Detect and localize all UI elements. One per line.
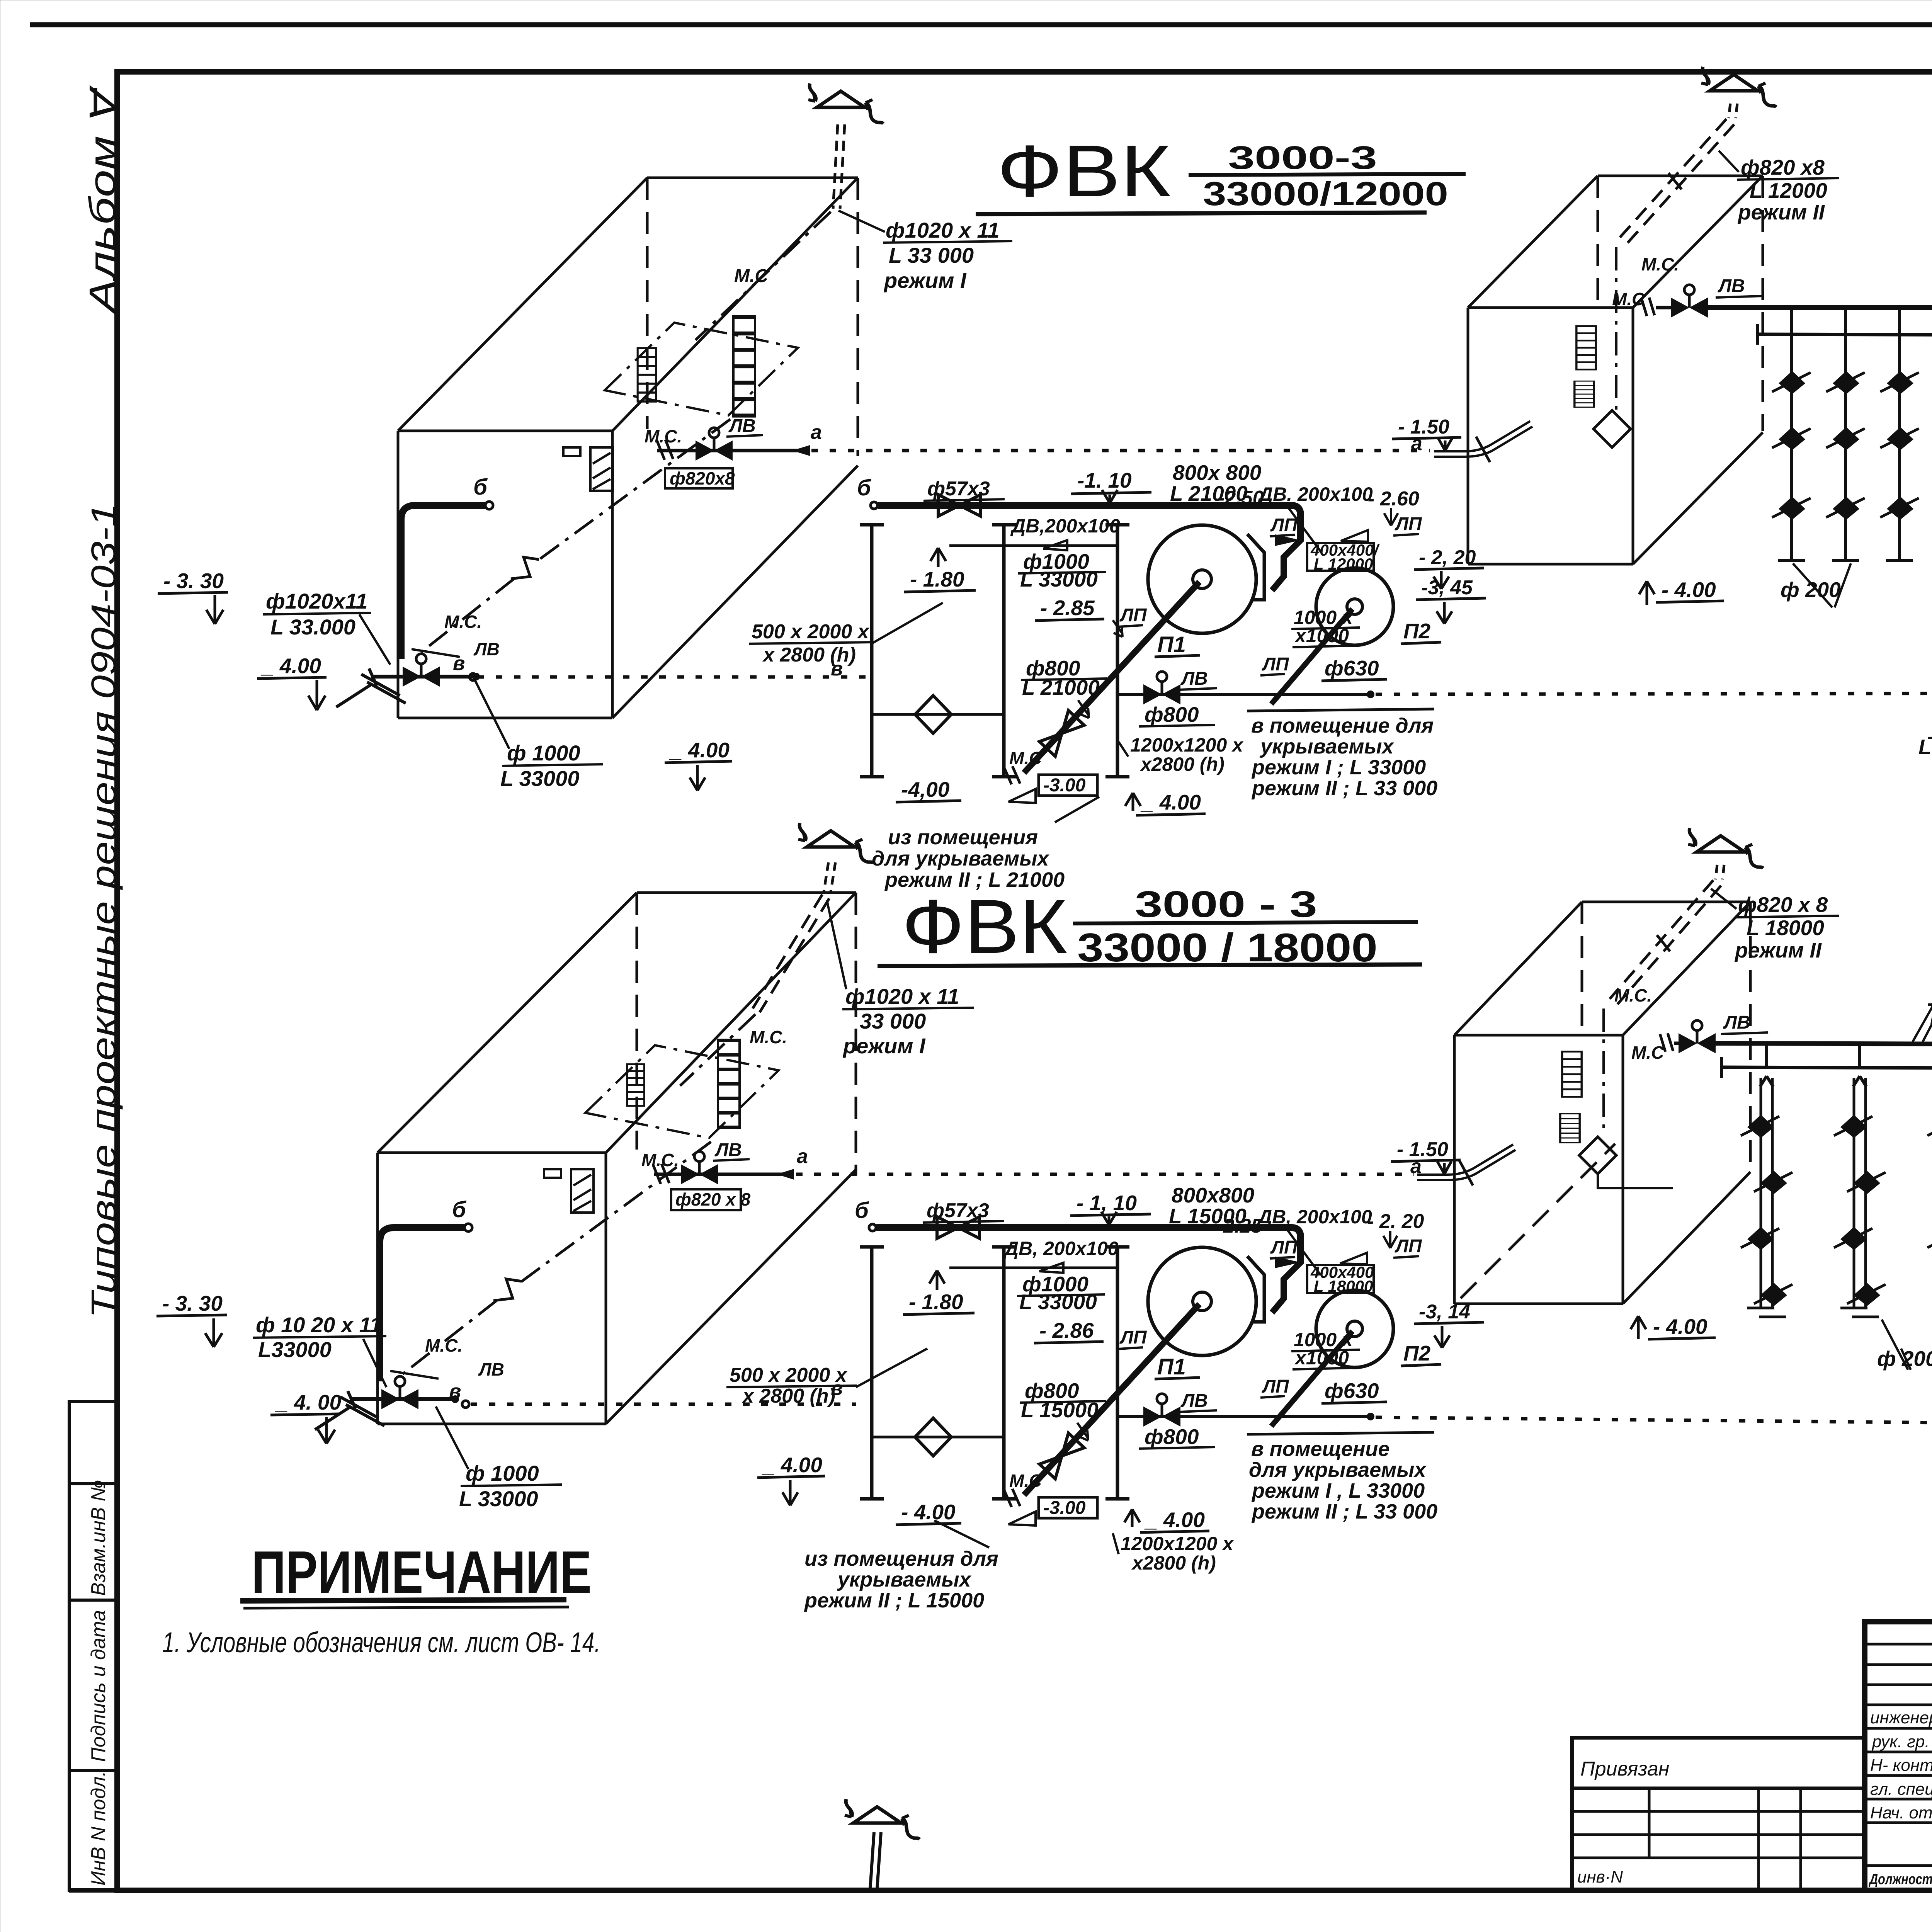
interior dash-dot duct bbox=[1615, 247, 1617, 410]
a-line level label bottom bbox=[1391, 1138, 1515, 1185]
svg-text:М.С.: М.С. bbox=[1641, 254, 1679, 274]
svg-text:в: в bbox=[449, 1380, 461, 1403]
svg-text:М.С.: М.С. bbox=[1614, 985, 1652, 1005]
svg-text:инженер: инженер bbox=[1870, 1708, 1932, 1727]
svg-text:х 2800 (h): х 2800 (h) bbox=[742, 1385, 835, 1407]
svg-text:L 33000: L 33000 bbox=[1020, 567, 1098, 591]
svg-text:х2800 (h): х2800 (h) bbox=[1139, 753, 1225, 775]
secondary rail bbox=[1756, 324, 1759, 345]
svg-text:укрываемых: укрываемых bbox=[1259, 735, 1395, 758]
svg-text:режим II: режим II bbox=[1737, 200, 1825, 224]
svg-text:М.С.: М.С. bbox=[425, 1335, 463, 1355]
interior stairs bbox=[1577, 326, 1596, 370]
main header duct bbox=[1702, 305, 1932, 310]
filter chamber verticals bbox=[860, 525, 884, 777]
svg-text:ф820 х 8: ф820 х 8 bbox=[1738, 893, 1828, 917]
interior stairs bbox=[1562, 1052, 1582, 1097]
svg-text:ф820х8: ф820х8 bbox=[670, 468, 735, 488]
LV branch line bbox=[1117, 1415, 1368, 1418]
svg-text:- 4.00: - 4.00 bbox=[901, 1500, 956, 1524]
svg-text:М.С: М.С bbox=[1009, 748, 1042, 768]
svg-text:б: б bbox=[452, 1197, 467, 1222]
svg-text:_ 4.00: _ 4.00 bbox=[1144, 1508, 1205, 1532]
node b circle bbox=[869, 1224, 876, 1231]
svg-text:режим I: режим I bbox=[883, 268, 967, 293]
title block outer box bbox=[1865, 1622, 1932, 1890]
svg-text:Подпись и дата: Подпись и дата bbox=[87, 1610, 110, 1762]
svg-text:- 1, 10: - 1, 10 bbox=[1077, 1191, 1137, 1215]
interior duct dash-dot diagonal with break bbox=[421, 419, 730, 652]
destination text block bbox=[1247, 1432, 1434, 1434]
interior dash-dot duct bbox=[1602, 1009, 1605, 1136]
filter diamond symbol bbox=[915, 696, 951, 733]
svg-text:- 2.86: - 2.86 bbox=[1039, 1318, 1094, 1342]
svg-text:ф800: ф800 bbox=[1145, 1425, 1199, 1449]
svg-text:режим II: режим II bbox=[1734, 938, 1822, 962]
svg-text:_ 4.00: _ 4.00 bbox=[762, 1453, 822, 1477]
svg-text:L33000: L33000 bbox=[258, 1337, 332, 1362]
svg-text:укрываемых: укрываемых bbox=[837, 1568, 972, 1591]
svg-text:_ 4.00: _ 4.00 bbox=[669, 738, 730, 762]
svg-text:3000-3: 3000-3 bbox=[1228, 139, 1377, 176]
destination text block bbox=[1247, 709, 1434, 711]
main duct b thick bbox=[878, 505, 1301, 540]
svg-text:L 33 000: L 33 000 bbox=[889, 243, 974, 267]
svg-text:ф 200: ф 200 bbox=[1781, 578, 1841, 602]
svg-text:режим II ; L 15000: режим II ; L 15000 bbox=[804, 1589, 984, 1612]
margin cell divider 2 bbox=[69, 1599, 117, 1602]
floor opening panel bbox=[585, 1045, 779, 1138]
shelter box outline bbox=[398, 178, 858, 718]
overline on V bbox=[94, 88, 97, 114]
intake vent cap at bottom bbox=[845, 1799, 920, 1839]
svg-text:П1: П1 bbox=[1157, 1354, 1186, 1379]
svg-text:в помещение: в помещение bbox=[1251, 1437, 1389, 1461]
svg-text:из помещения: из помещения bbox=[888, 826, 1038, 849]
svg-text:М.С: М.С bbox=[1631, 1043, 1664, 1063]
LV branch line bbox=[1117, 693, 1368, 696]
svg-text:- 2.85: - 2.85 bbox=[1040, 596, 1095, 620]
a-line pipe into right box bbox=[1434, 421, 1532, 457]
roof vent cap bbox=[808, 83, 883, 124]
gate valve LV bbox=[696, 428, 733, 461]
400x400 framed label bbox=[1307, 1265, 1374, 1293]
main duct b thick bbox=[876, 1228, 1301, 1262]
svg-text:-3, 45: -3, 45 bbox=[1421, 577, 1473, 599]
hanging unit 1 bbox=[1741, 1046, 1793, 1317]
svg-text:б: б bbox=[473, 474, 488, 500]
svg-text:ИнВ N подл.: ИнВ N подл. bbox=[87, 1771, 110, 1886]
svg-text:режим I , L 33000: режим I , L 33000 bbox=[1251, 1479, 1425, 1502]
svg-text:- 1.50: - 1.50 bbox=[1398, 416, 1449, 438]
svg-text:ЛВ: ЛВ bbox=[714, 1140, 742, 1160]
svg-text:ф820 х 8: ф820 х 8 bbox=[675, 1189, 751, 1209]
fan P2 bbox=[1316, 1290, 1393, 1367]
svg-text:ЛВ: ЛВ bbox=[1180, 668, 1208, 689]
hidden edges dashed bbox=[1598, 176, 1763, 431]
svg-text:_ 4.00: _ 4.00 bbox=[1140, 790, 1201, 814]
svg-text:Должность: Должность bbox=[1869, 1871, 1932, 1888]
svg-text:800х800: 800х800 bbox=[1172, 1183, 1255, 1207]
frame bottom extension under margin column bbox=[69, 1888, 117, 1893]
svg-text:_ 4.00: _ 4.00 bbox=[260, 654, 321, 678]
exhaust duct diagonal dashed bbox=[753, 895, 829, 1012]
svg-text:Типовые проектные решения 0904: Типовые проектные решения 0904-03-1 bbox=[85, 503, 123, 1318]
svg-text:М.С.: М.С. bbox=[444, 612, 482, 632]
svg-text:б: б bbox=[855, 1198, 869, 1223]
riser column 1 bbox=[1772, 309, 1811, 560]
margin stamp column bbox=[69, 1401, 117, 1890]
svg-text:_ 4. 00: _ 4. 00 bbox=[275, 1390, 342, 1414]
svg-text:33000/12000: 33000/12000 bbox=[1203, 175, 1448, 213]
svg-text:33 000: 33 000 bbox=[860, 1009, 926, 1033]
shelter box outline bbox=[378, 893, 856, 1424]
node a arrow bbox=[792, 445, 810, 456]
svg-text:ЛВ: ЛВ bbox=[1718, 276, 1745, 296]
intake pipe assembly lower left bbox=[371, 675, 475, 679]
floor opening panel bbox=[605, 323, 798, 415]
svg-text:для укрываемых: для укрываемых bbox=[1249, 1458, 1427, 1481]
svg-text:-2.50: -2.50 bbox=[1218, 487, 1264, 509]
svg-text:ДВ, 200х100: ДВ, 200х100 bbox=[1257, 1206, 1372, 1228]
svg-text:ЛП: ЛП bbox=[1270, 1237, 1298, 1258]
svg-text:в: в bbox=[831, 1377, 843, 1400]
svg-text:- 1.50: - 1.50 bbox=[1397, 1138, 1448, 1161]
svg-text:ЛП: ЛП bbox=[1395, 1236, 1422, 1257]
svg-text:ФВК: ФВК bbox=[902, 884, 1067, 969]
svg-text:х2800 (h): х2800 (h) bbox=[1131, 1552, 1216, 1574]
hanging unit 2 bbox=[1834, 1046, 1886, 1317]
svg-text:- 3. 30: - 3. 30 bbox=[163, 569, 224, 593]
svg-text:- 2.60: - 2.60 bbox=[1368, 488, 1419, 510]
svg-text:ЛВ: ЛВ bbox=[473, 639, 500, 659]
svg-text:режим II ; L 21000: режим II ; L 21000 bbox=[884, 868, 1065, 891]
svg-text:-3.00: -3.00 bbox=[1043, 1498, 1086, 1518]
svg-text:ФВК: ФВК bbox=[997, 130, 1171, 212]
svg-text:ф630: ф630 bbox=[1325, 1379, 1379, 1403]
intake stair shaft 1 bbox=[638, 348, 656, 401]
svg-text:ДВ, 200х100: ДВ, 200х100 bbox=[1003, 1238, 1119, 1259]
svg-text:ЛП: ЛП bbox=[1262, 654, 1289, 675]
svg-text:Н- контр.: Н- контр. bbox=[1870, 1756, 1932, 1775]
svg-text:ЛП: ЛП bbox=[1270, 515, 1298, 536]
svg-text:L 33000: L 33000 bbox=[459, 1486, 538, 1511]
svg-text:П1: П1 bbox=[1157, 632, 1186, 657]
left annex table bbox=[1572, 1738, 1865, 1890]
filter diamond symbol bbox=[915, 1418, 951, 1456]
svg-text:L 12000: L 12000 bbox=[1314, 555, 1373, 573]
svg-text:ф1020х11: ф1020х11 bbox=[266, 589, 367, 613]
fan P1 bbox=[1148, 525, 1256, 633]
roof vent cap bbox=[1701, 67, 1776, 107]
chamber top connector bbox=[949, 544, 1117, 547]
svg-text:режим I ; L 33000: режим I ; L 33000 bbox=[1251, 756, 1426, 779]
svg-text:L 33.000: L 33.000 bbox=[270, 615, 355, 639]
filter chamber verticals bbox=[860, 1247, 884, 1499]
svg-text:ф1020 х 11: ф1020 х 11 bbox=[845, 984, 959, 1009]
door hatched panel bbox=[571, 1169, 594, 1213]
svg-text:М.С.: М.С. bbox=[645, 426, 682, 446]
shelter box outline bbox=[1468, 176, 1763, 564]
svg-text:- 1.80: - 1.80 bbox=[910, 567, 964, 591]
svg-text:- 1.80: - 1.80 bbox=[909, 1290, 963, 1314]
svg-text:L 12000: L 12000 bbox=[1750, 179, 1827, 202]
svg-text:для укрываемых: для укрываемых bbox=[872, 847, 1049, 870]
svg-text:ф630: ф630 bbox=[1325, 656, 1379, 680]
exhaust duct diagonal dashed bbox=[1615, 119, 1734, 248]
hidden edges dashed bbox=[1461, 902, 1750, 1298]
svg-text:800х 800: 800х 800 bbox=[1173, 461, 1262, 485]
svg-text:- 4.00: - 4.00 bbox=[1662, 578, 1716, 602]
svg-text:ДВ,200х100: ДВ,200х100 bbox=[1010, 515, 1120, 537]
svg-text:режим II ; L 33 000: режим II ; L 33 000 bbox=[1251, 1500, 1437, 1523]
svg-text:L 33000: L 33000 bbox=[1019, 1290, 1097, 1314]
node b circle bbox=[871, 502, 878, 509]
svg-text:L 18000: L 18000 bbox=[1747, 916, 1824, 940]
svg-text:П2: П2 bbox=[1403, 619, 1431, 643]
exhaust duct diagonal dashed bbox=[1610, 880, 1721, 1004]
svg-text:1. Условные обозначения см.: 1. Условные обозначения см. лист ОВ- 14. bbox=[162, 1626, 600, 1658]
svg-text:-1. 10: -1. 10 bbox=[1077, 468, 1132, 492]
svg-text:ЛП: ЛП bbox=[1119, 605, 1147, 626]
duct arrow into P1 bbox=[1275, 534, 1301, 546]
svg-text:ф 10 20 х 11: ф 10 20 х 11 bbox=[256, 1313, 382, 1337]
svg-text:- 4.00: - 4.00 bbox=[1653, 1315, 1708, 1338]
connecting duct bbox=[1272, 1236, 1301, 1313]
svg-text:- 2. 20: - 2. 20 bbox=[1367, 1210, 1424, 1233]
svg-text:L 18000: L 18000 bbox=[1314, 1277, 1373, 1295]
svg-text:М.С.: М.С. bbox=[641, 1150, 679, 1170]
svg-text:ф800: ф800 bbox=[1145, 702, 1199, 726]
main header duct bbox=[1709, 1043, 1932, 1045]
shelter box outline bbox=[1454, 902, 1750, 1304]
svg-text:ЛП: ЛП bbox=[1119, 1327, 1147, 1348]
svg-text:М.С.: М.С. bbox=[750, 1027, 787, 1047]
interior filter diamond bbox=[1594, 410, 1631, 447]
svg-text:а: а bbox=[797, 1145, 808, 1168]
fan P1 bbox=[1148, 1247, 1256, 1355]
svg-text:в помещение для: в помещение для bbox=[1251, 714, 1434, 737]
hidden edges dashed bbox=[637, 893, 856, 1175]
door hatched panel bbox=[590, 447, 613, 491]
svg-text:ЛВ: ЛВ bbox=[1180, 1391, 1208, 1411]
riser to cap bbox=[1729, 104, 1737, 118]
dotted line a to right box bbox=[796, 1173, 1414, 1176]
intake stair shafts bbox=[627, 1064, 645, 1106]
svg-text:ЛВ: ЛВ bbox=[728, 416, 756, 436]
vent riser dashed bbox=[833, 124, 845, 209]
svg-text:L 33000: L 33000 bbox=[500, 766, 579, 791]
vent riser dashed bbox=[824, 862, 835, 892]
svg-text:500 х 2000 х: 500 х 2000 х bbox=[730, 1364, 848, 1386]
node b riser thick pipe bbox=[464, 1224, 472, 1231]
dashed line to grilles bbox=[1376, 693, 1932, 694]
duct dash-dot from riser to stairs bbox=[696, 212, 831, 340]
margin cell divider 3 bbox=[69, 1769, 117, 1772]
connecting duct 800x800 bbox=[1272, 514, 1301, 590]
node b riser thick pipe bbox=[485, 502, 493, 509]
interior duct dash-dot diagonal with break bbox=[403, 1142, 711, 1374]
svg-text:М.С: М.С bbox=[1612, 289, 1645, 309]
svg-text:ф1020 х 11: ф1020 х 11 bbox=[886, 218, 1000, 242]
valve on b line bbox=[938, 495, 981, 516]
intake pipe assembly lower left bbox=[350, 1397, 454, 1401]
svg-text:1200х1200 х: 1200х1200 х bbox=[1130, 734, 1244, 756]
svg-text:1200х1200 х: 1200х1200 х bbox=[1121, 1533, 1234, 1554]
svg-text:Альбом V: Альбом V bbox=[82, 85, 123, 315]
svg-text:М.С: М.С bbox=[1009, 1471, 1042, 1491]
svg-text:а: а bbox=[811, 421, 822, 444]
duct dash-dot to stairs bbox=[680, 1014, 755, 1086]
svg-text:б: б bbox=[857, 475, 872, 500]
riser column 3 bbox=[1880, 309, 1919, 560]
svg-text:ф 1000: ф 1000 bbox=[507, 741, 580, 765]
dotted line a to right box bbox=[811, 449, 1430, 452]
svg-text:режим II ; L 33 000: режим II ; L 33 000 bbox=[1251, 777, 1437, 800]
svg-text:- 3. 30: - 3. 30 bbox=[162, 1291, 223, 1315]
svg-text:3000 - 3: 3000 - 3 bbox=[1135, 884, 1317, 925]
node v dotted line bbox=[469, 673, 476, 680]
riser column 2 bbox=[1826, 309, 1865, 560]
fan P2 bbox=[1316, 568, 1393, 645]
svg-text:в: в bbox=[453, 652, 465, 675]
svg-text:ДВ. 200х100: ДВ. 200х100 bbox=[1257, 483, 1373, 505]
svg-text:П2: П2 bbox=[1403, 1341, 1431, 1365]
intake stair shaft 2 bbox=[733, 317, 755, 416]
node v dotted line bbox=[462, 1401, 469, 1408]
svg-text:ЛП: ЛП bbox=[1395, 514, 1422, 534]
svg-text:рук. гр.: рук. гр. bbox=[1871, 1732, 1930, 1751]
svg-text:режим I: режим I bbox=[842, 1034, 926, 1058]
400x400 framed label bbox=[1307, 543, 1374, 571]
svg-text:ф 1000: ф 1000 bbox=[466, 1461, 539, 1485]
svg-text:Нач. отд.: Нач. отд. bbox=[1870, 1803, 1932, 1822]
svg-text:500 х 2000 х: 500 х 2000 х bbox=[752, 621, 870, 643]
svg-text:-3.00: -3.00 bbox=[1043, 775, 1086, 796]
svg-text:а: а bbox=[1411, 432, 1422, 455]
svg-text:Привязан: Привязан bbox=[1580, 1758, 1669, 1780]
f820x8 framed label bbox=[665, 468, 733, 488]
interior filter diamond bbox=[1579, 1137, 1616, 1174]
svg-text:Взам.инВ №: Взам.инВ № bbox=[87, 1480, 110, 1596]
dashed line to grilles (zh) bbox=[1376, 1417, 1932, 1423]
svg-text:в: в bbox=[831, 658, 843, 680]
svg-text:ф820 х8: ф820 х8 bbox=[1741, 155, 1825, 179]
roof vent cap bbox=[798, 823, 873, 863]
svg-text:ЛВ: ЛВ bbox=[478, 1359, 504, 1379]
hanging unit 3 bbox=[1927, 1046, 1932, 1317]
svg-text:из помещения для: из помещения для bbox=[804, 1547, 998, 1570]
svg-text:ЛП: ЛП bbox=[1262, 1376, 1289, 1397]
outer top edge line bbox=[30, 22, 1932, 27]
left table row lines bbox=[1865, 1643, 1932, 1646]
svg-text:ЛВ: ЛВ bbox=[1723, 1012, 1750, 1033]
margin cell divider 1 bbox=[69, 1482, 117, 1485]
svg-text:инв·N: инв·N bbox=[1577, 1867, 1623, 1886]
svg-text:-4,00: -4,00 bbox=[901, 777, 950, 801]
svg-text:ПРИМЕЧАНИЕ: ПРИМЕЧАНИЕ bbox=[252, 1539, 592, 1605]
svg-text:гл. спец.: гл. спец. bbox=[1870, 1780, 1932, 1799]
roof vent cap bbox=[1688, 828, 1763, 868]
hidden edges dashed bbox=[647, 178, 858, 456]
secondary rail bbox=[1721, 1067, 1932, 1069]
svg-text:-2.25: -2.25 bbox=[1216, 1215, 1263, 1237]
a-line level label top bbox=[811, 416, 1532, 462]
